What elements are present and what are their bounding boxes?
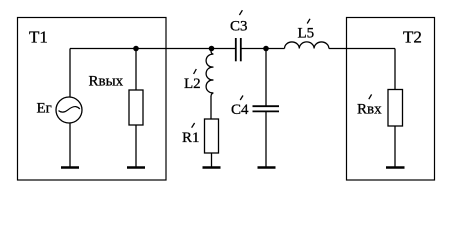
wire R1 bottom xyxy=(211,153,213,167)
wire Rvyh bottom xyxy=(135,125,137,167)
prime of L2 xyxy=(194,69,197,74)
capacitor C3 xyxy=(235,38,237,61)
wire C4 top xyxy=(265,49,267,106)
svg-text:Rвых: Rвых xyxy=(89,73,124,89)
wire generator top xyxy=(69,49,71,98)
prime of R1 xyxy=(192,123,195,128)
ground for Eg xyxy=(61,166,79,169)
prime of C3 xyxy=(239,10,242,15)
node junction at L2 xyxy=(209,46,215,52)
node junction at Rvyh xyxy=(133,46,139,52)
svg-text:L5: L5 xyxy=(298,26,315,42)
resistor Rvyh xyxy=(129,90,143,125)
generator Eg xyxy=(56,97,82,123)
inductor L5 xyxy=(285,42,329,49)
box T2 xyxy=(347,18,435,181)
inductor L2 xyxy=(206,49,213,97)
wire between C3 and L5 xyxy=(241,48,285,50)
wire Rvx bottom xyxy=(394,126,396,167)
svg-text:Ег: Ег xyxy=(37,101,52,117)
capacitor C4 xyxy=(253,105,280,107)
wire C4 bottom xyxy=(265,112,267,167)
wire main bus left segment xyxy=(70,48,235,50)
node junction at C4 xyxy=(263,46,269,52)
resistor Rvx xyxy=(388,90,403,127)
prime of C4 xyxy=(240,96,243,101)
wire L2 to R1 xyxy=(210,96,212,119)
svg-text:L2: L2 xyxy=(184,76,201,92)
wire generator bottom xyxy=(69,123,71,167)
svg-text:Т2: Т2 xyxy=(403,27,422,46)
ground for Rvyh xyxy=(127,166,145,169)
ground for Rvx xyxy=(386,166,405,169)
prime of L5 xyxy=(307,19,310,24)
prime of Rvx xyxy=(369,94,372,99)
resistor R1 xyxy=(205,119,219,153)
wire from L5 into T2 xyxy=(329,48,395,50)
svg-text:Rвх: Rвх xyxy=(357,101,382,117)
box T1 xyxy=(18,18,167,181)
svg-text:R1: R1 xyxy=(182,130,200,146)
svg-text:Т1: Т1 xyxy=(29,28,48,47)
svg-text:C4: C4 xyxy=(231,102,249,118)
wire down to Rvx xyxy=(394,49,396,90)
ground for C4 xyxy=(258,166,276,169)
wire Rvyh top xyxy=(135,49,137,91)
ground for R1 xyxy=(203,166,221,169)
svg-text:C3: C3 xyxy=(230,18,248,34)
